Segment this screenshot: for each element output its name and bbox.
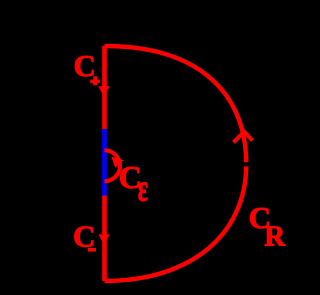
wire: vertical segment C+ (red) bbox=[102, 46, 107, 129]
contour C_R large arc (top half) bbox=[105, 46, 247, 164]
gap in large arc at rightmost point bbox=[242, 162, 251, 166]
contour C_R large arc (bottom half) bbox=[105, 164, 247, 281]
small arc C_eps around pole bbox=[105, 150, 121, 181]
arrowhead on C- (down) bbox=[98, 234, 109, 244]
svg-text:C: C bbox=[74, 48, 96, 83]
branch cut segment (blue) bbox=[102, 129, 107, 196]
wire: vertical segment C- (red) bbox=[102, 196, 107, 282]
svg-text:R: R bbox=[264, 221, 286, 253]
arrowhead on large arc (open V, pointing up along arc) bbox=[234, 132, 253, 143]
svg-text:ε: ε bbox=[138, 167, 148, 209]
arrowhead on small arc (down-left) bbox=[111, 157, 123, 168]
arrowhead on C+ (down) bbox=[98, 86, 109, 96]
